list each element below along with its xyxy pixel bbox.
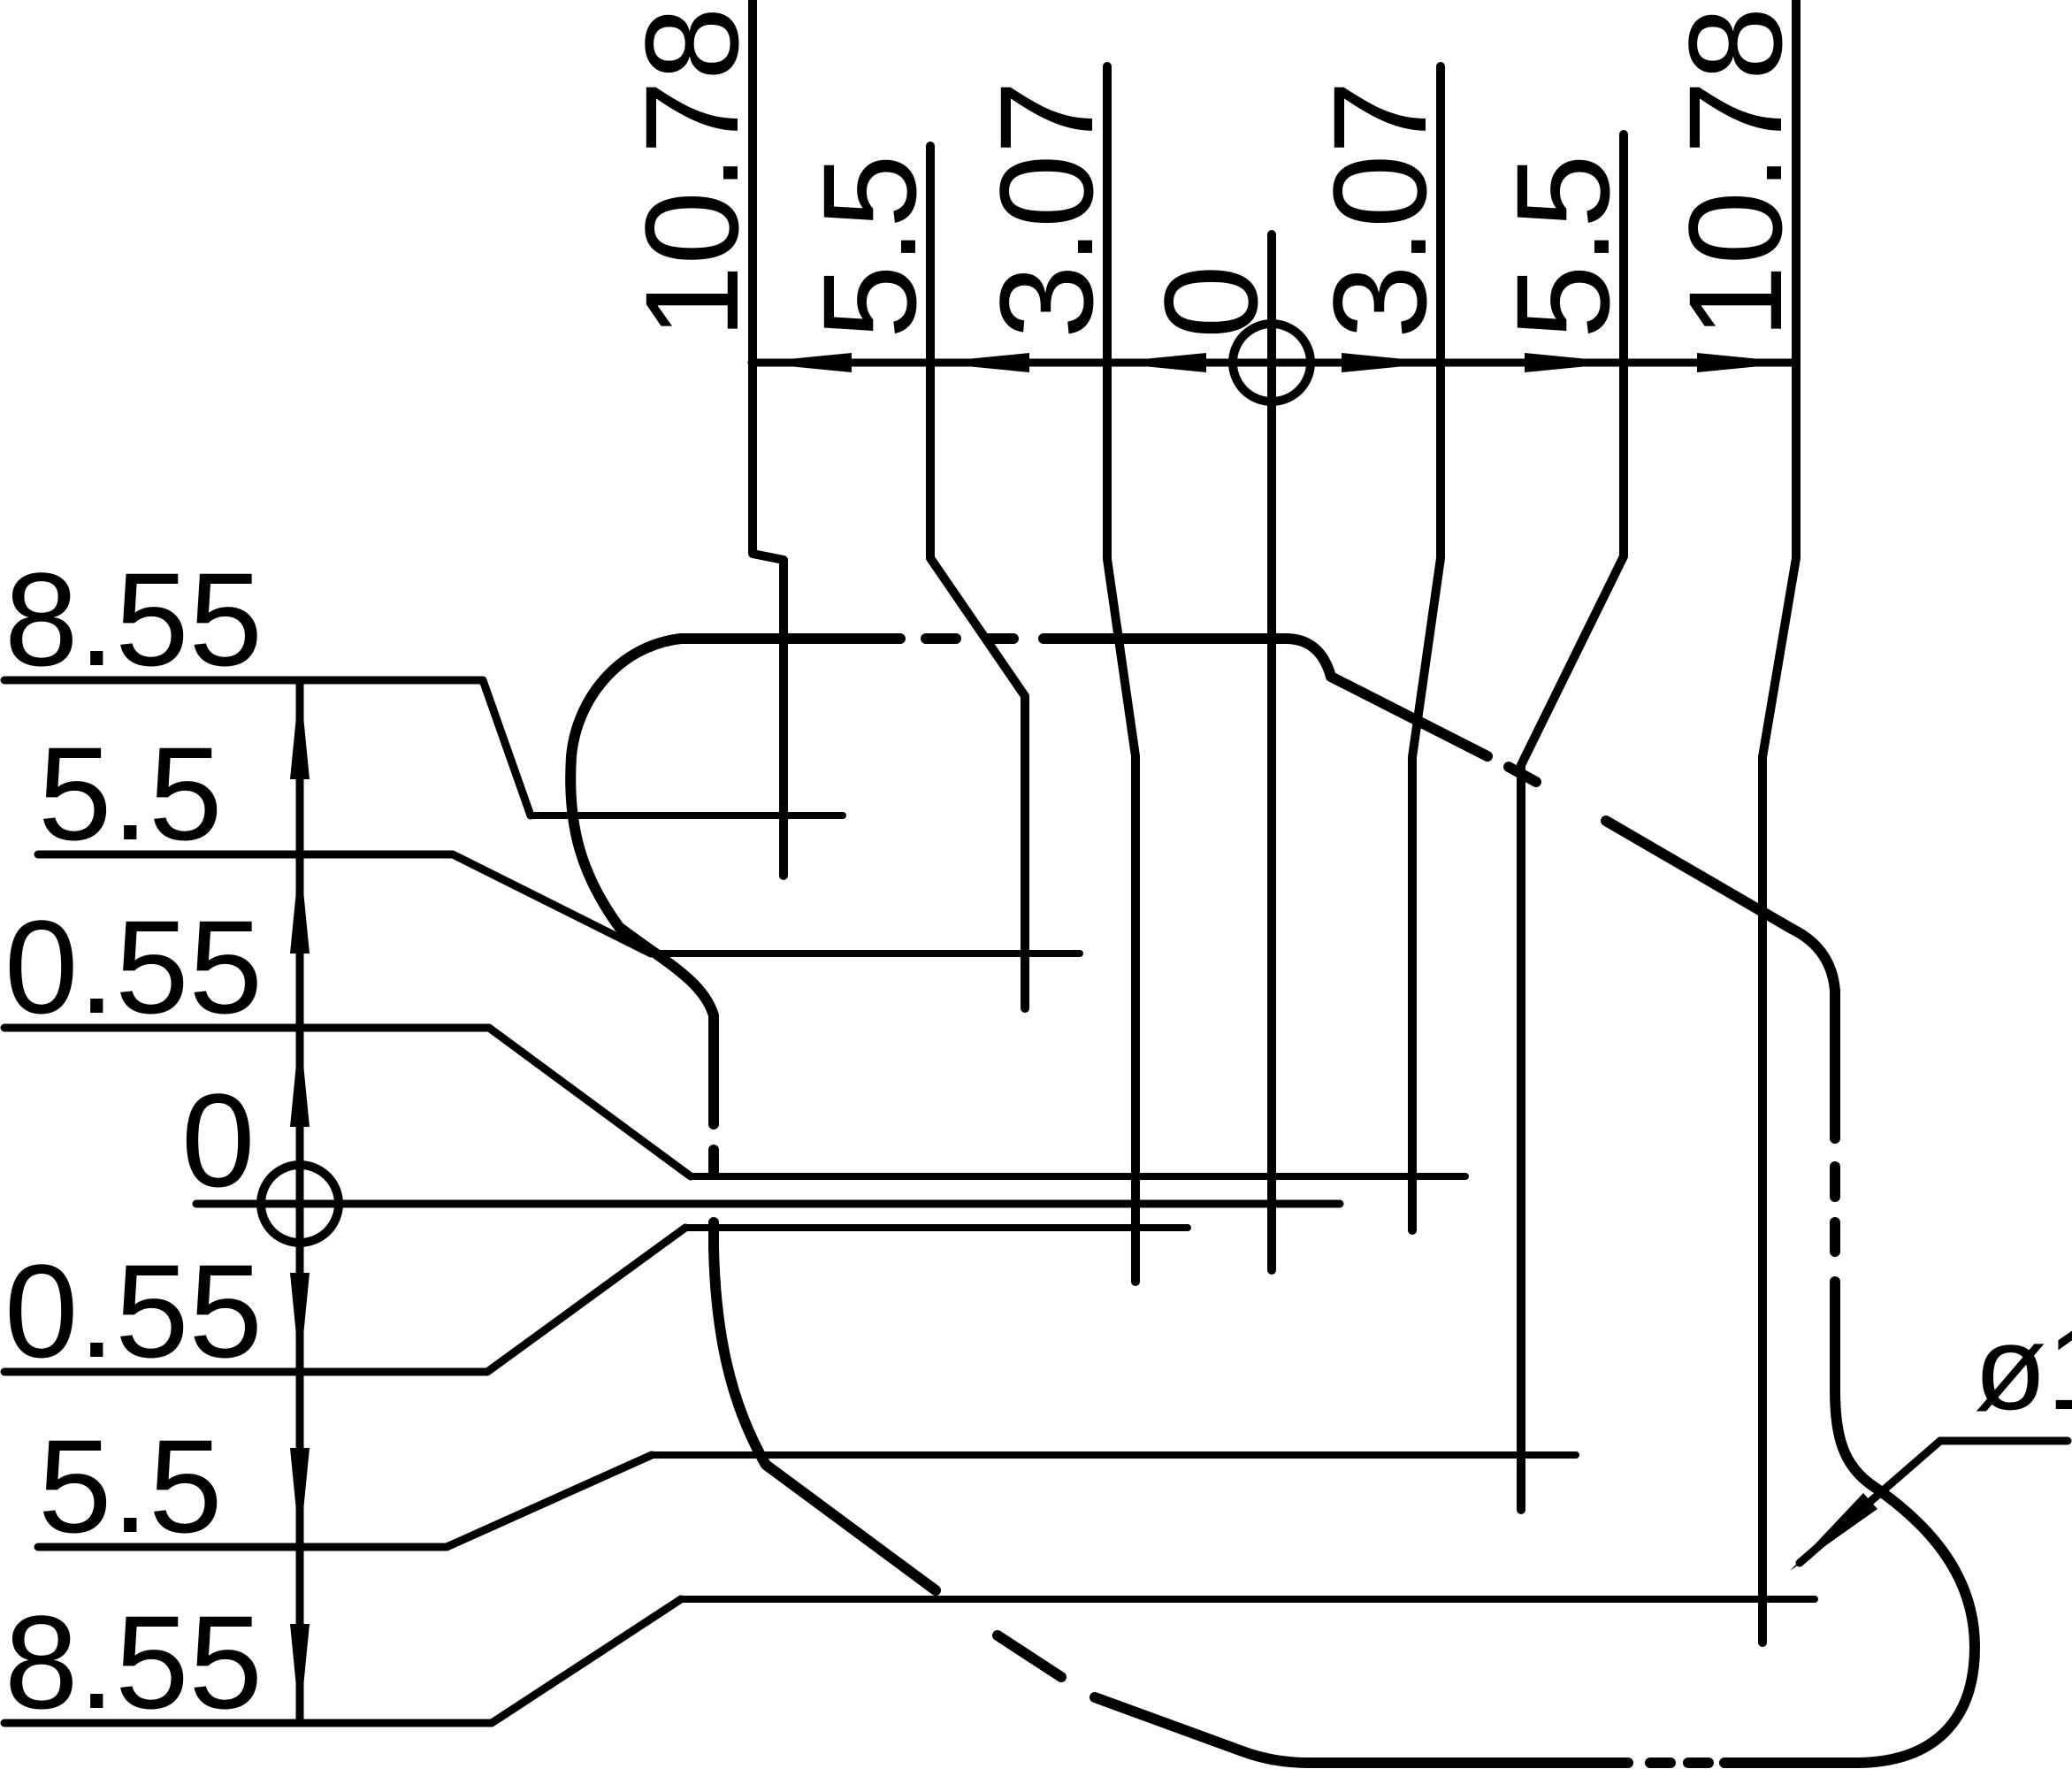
svg-text:3.07: 3.07 (1305, 80, 1454, 339)
body outline: bottom diagonal into bottom edge (long dash) (1095, 1697, 1628, 1763)
pin row line P5 (652, 1451, 1576, 1459)
svg-text:0.55: 0.55 (4, 1237, 263, 1385)
label line 0.55 top + jog to pin row P4 (4, 1028, 691, 1176)
body outline: bottom diagonal short dash (998, 1635, 1061, 1677)
svg-text:5.5: 5.5 (38, 1412, 223, 1560)
extension line / leader 5.5 left to pin P2 (930, 146, 1025, 1008)
extension line / leader 3.07 right to pin P4 (1412, 66, 1441, 1230)
svg-text:8.55: 8.55 (4, 545, 263, 693)
pin row line P6 (681, 1596, 1815, 1603)
body outline: right side dash-dot short dash 2 (1830, 1167, 1840, 1197)
pin row line P2 (651, 950, 1080, 957)
datum line 0 horizontal (196, 1200, 1340, 1208)
extension line / leader 10.78 right to pin P6 (1762, 0, 1796, 1643)
label line 8.55 top + jog to pin row P1 (4, 680, 531, 816)
body outline: bottom edge short dash 1 (1650, 1758, 1671, 1768)
svg-text:10.78: 10.78 (617, 7, 766, 339)
svg-text:10.78: 10.78 (1661, 7, 1809, 339)
pin position targets (0, 0, 1, 1)
leader note ø1 (1790, 1301, 2072, 1571)
label line 0.55 bottom + jog to pin row P3 (4, 1228, 685, 1372)
pin row line P1 (531, 812, 843, 819)
svg-text:8.55: 8.55 (4, 1588, 263, 1736)
extension line / leader 5.5 right to pin P5 (1521, 134, 1624, 1510)
dimension arrows left (290, 680, 310, 779)
body outline: chamfer solid + top right corner + top edge right (1044, 639, 1487, 756)
extension line 0 (top datum centerline) (1267, 234, 1276, 1270)
body outline: right side dash-dot short dash 1 (1830, 1222, 1840, 1252)
body outline: left lower S-curve into bottom diagonal (long dash) (714, 1222, 936, 1590)
body outline: chamfer short dash (1509, 767, 1536, 782)
pin row line P4 (691, 1173, 1465, 1180)
svg-text:ø1: ø1 (1974, 1301, 2072, 1435)
extension line / leader 3.07 left to pin P3 (1107, 66, 1135, 1282)
body outline: top edge short dash 1 (988, 633, 1013, 644)
extension line / leader 10.78 left to pin P1 (753, 0, 784, 876)
svg-text:0.55: 0.55 (4, 892, 263, 1041)
body outline: right side long dash + corner + chamfer long dash (1606, 821, 1835, 1138)
svg-text:5.5: 5.5 (1488, 154, 1637, 339)
label line 5.5 bottom + jog to pin row P5 (38, 1455, 652, 1547)
body outline: left side dash-dot short dash (708, 1150, 719, 1172)
top dimension line (752, 359, 1796, 367)
body outline: bottom edge short dash 2 (1688, 1758, 1709, 1768)
dimension arrows top (290, 353, 1796, 1723)
svg-text:0: 0 (181, 1066, 255, 1214)
label line 8.55 bottom + jog to pin row P6 (4, 1599, 681, 1723)
svg-text:0: 0 (1136, 265, 1285, 339)
label line 5.5 top + jog to pin row P2 (38, 854, 651, 953)
pin row line P3 (685, 1224, 1188, 1231)
left dimension line (296, 680, 304, 1723)
body outline: bottom right bulge (long dash) (1724, 1282, 1975, 1763)
body outline: top edge short dash 2 (926, 633, 956, 644)
left datum circle (0 reference) (261, 1165, 339, 1243)
body outline: top edge left + left lobe arc + left side long dash (570, 639, 900, 1124)
svg-text:5.5: 5.5 (795, 154, 944, 339)
svg-text:5.5: 5.5 (38, 719, 223, 868)
svg-text:3.07: 3.07 (972, 80, 1120, 339)
top datum circle (0 reference) (1233, 324, 1311, 402)
